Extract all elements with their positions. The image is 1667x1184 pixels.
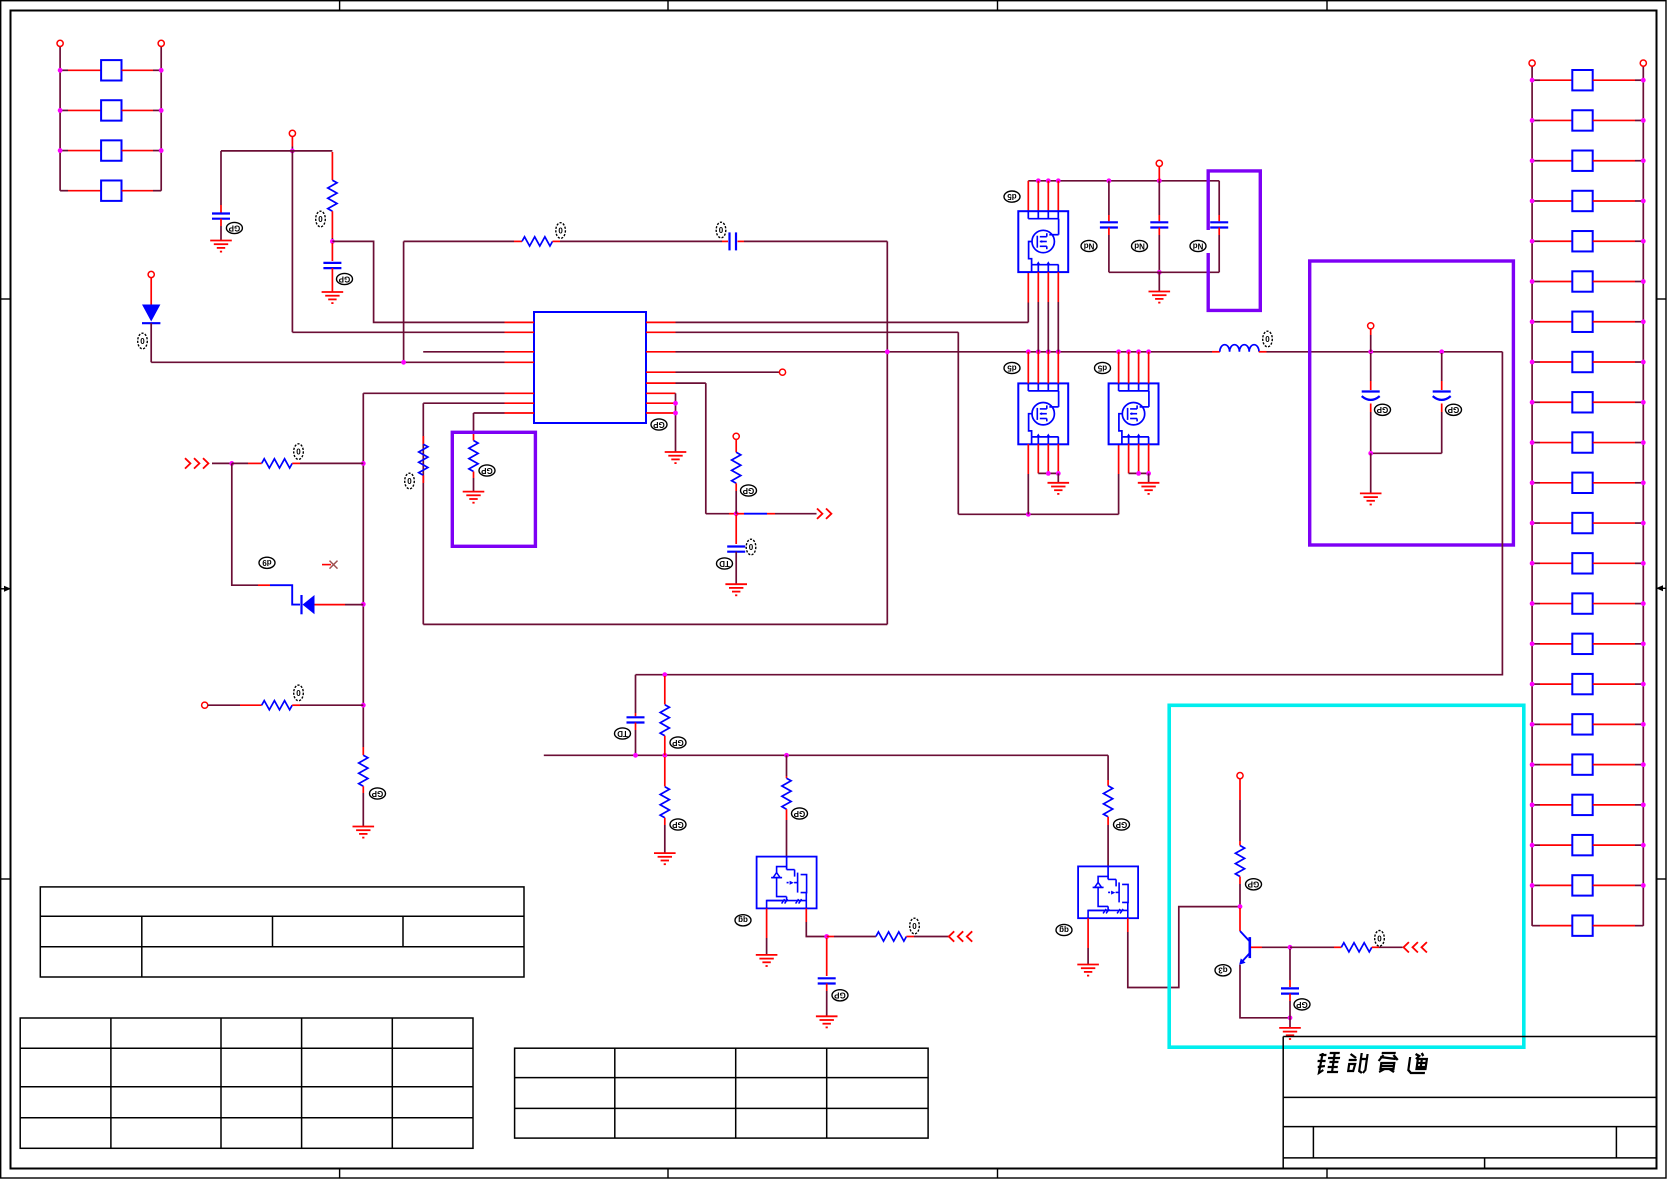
svg-text:0: 0	[558, 227, 563, 236]
svg-text:GP: GP	[672, 820, 684, 829]
svg-text:0: 0	[296, 689, 301, 698]
svg-text:0: 0	[912, 922, 917, 931]
svg-text:GP: GP	[1247, 880, 1259, 889]
svg-text:Nd: Nd	[1134, 241, 1145, 250]
svg-text:GP: GP	[1115, 820, 1127, 829]
svg-text:d5: d5	[1097, 363, 1107, 372]
svg-text:GP: GP	[1447, 405, 1459, 414]
svg-text:0: 0	[719, 226, 724, 235]
svg-text:TD: TD	[617, 729, 628, 738]
svg-text:GP: GP	[834, 991, 846, 1000]
svg-text:GP: GP	[793, 809, 805, 818]
svg-text:GP: GP	[1296, 1000, 1308, 1009]
svg-text:d5: d5	[1007, 192, 1017, 201]
svg-text:GP: GP	[672, 738, 684, 747]
svg-text:qg: qg	[738, 916, 748, 925]
svg-text:0: 0	[140, 337, 145, 346]
svg-text:d5: d5	[1007, 363, 1017, 372]
svg-text:GP: GP	[338, 274, 350, 283]
svg-text:0: 0	[296, 448, 301, 457]
svg-text:0: 0	[1377, 934, 1382, 943]
svg-text:TD: TD	[719, 559, 730, 568]
svg-text:GP: GP	[742, 486, 754, 495]
svg-text:GP: GP	[228, 223, 240, 232]
svg-text:q3: q3	[1218, 966, 1228, 975]
svg-text:0: 0	[1265, 335, 1270, 344]
svg-text:0: 0	[318, 215, 323, 224]
svg-text:GP: GP	[371, 789, 383, 798]
svg-text:Nd: Nd	[1193, 241, 1204, 250]
svg-text:GP: GP	[653, 420, 665, 429]
svg-text:GP: GP	[1376, 405, 1388, 414]
svg-text:GP: GP	[481, 466, 493, 475]
svg-text:0: 0	[407, 477, 412, 486]
svg-text:0: 0	[749, 543, 754, 552]
svg-text:qg: qg	[1059, 925, 1069, 934]
svg-text:d9: d9	[262, 558, 272, 567]
svg-text:Nd: Nd	[1084, 241, 1095, 250]
